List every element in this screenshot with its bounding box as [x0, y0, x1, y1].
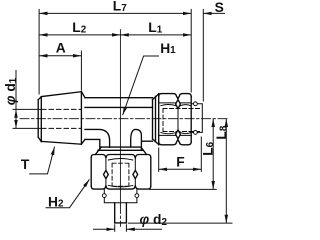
dimension phi d1 vertical: [15, 70, 17, 109]
branch neck right wall with fillet and right drop: [131, 129, 153, 150]
svg-text:F: F: [176, 154, 184, 169]
right nut diamond bottom: [176, 130, 181, 139]
thread T end face: [80, 92, 82, 145]
extension line nut right face: [190, 9, 192, 93]
svg-text:L6: L6: [201, 141, 216, 155]
thread T chamfers: [38, 97, 41, 142]
bottom nut diamond left: [104, 170, 109, 178]
bottom nut H2 right face: [150, 158, 152, 187]
right nut right face: [190, 97, 192, 142]
body bottom left with step: [85, 139, 100, 150]
svg-text:H2: H2: [48, 194, 64, 209]
bottom skirt sleeve: [104, 189, 137, 203]
bottom nut hidden bore dashed: [112, 163, 129, 186]
extension lines F: [159, 137, 202, 172]
right nut bottom edge humps with notch: [159, 140, 192, 145]
right nut chamfer arcs: [161, 105, 191, 134]
body top line: [85, 97, 153, 99]
bottom cone slants: [95, 147, 146, 154]
right skirt sleeve: [191, 104, 202, 133]
bottom nut hex corner lines: [106, 158, 135, 185]
svg-text:L1: L1: [148, 20, 162, 35]
dimension F: [159, 168, 202, 170]
svg-text:A: A: [56, 40, 66, 55]
svg-text:L8: L8: [214, 125, 229, 139]
bottom nut H2 bottom edge humps: [91, 186, 151, 189]
extension line thread end A: [80, 51, 82, 91]
right seat plate inner line: [152, 100, 154, 139]
leader T: [29, 147, 54, 174]
right cone slants: [153, 94, 159, 145]
bottom skirt dimple circles: [102, 194, 106, 198]
extension lines phi d2: [115, 224, 127, 232]
wire extension line branch center: [119, 30, 121, 206]
thread T top edge: [41, 92, 81, 97]
svg-text:T: T: [21, 157, 30, 172]
bottom nut H2 left face: [90, 158, 92, 187]
right seat plate outer line: [155, 96, 157, 141]
bottom nut H2 top edge humps: [91, 155, 151, 158]
svg-text:L7: L7: [113, 0, 127, 14]
svg-text:φ d2: φ d2: [140, 212, 168, 228]
bottom nut diamond right: [133, 170, 138, 178]
dimension A: [39, 55, 81, 57]
thread T dashed root lines: [42, 109, 82, 128]
right skirt dimple circles: [194, 102, 198, 106]
centerline vertical branch axis: [119, 206, 121, 227]
extension lines phi d1: [13, 109, 42, 128]
dimension phi d2: [93, 228, 115, 230]
thread T left end face: [37, 100, 39, 138]
extension line nut bottom: [149, 188, 217, 190]
right nut chamfer band lines: [159, 103, 192, 135]
leader H2: [46, 179, 90, 207]
bottom tube end: [115, 222, 127, 224]
extension line tube end: [128, 222, 233, 224]
extension line tube stub end: [202, 9, 204, 102]
bottom tube walls: [115, 203, 127, 223]
right nut diamond top: [176, 100, 181, 109]
right nut left face: [158, 94, 160, 145]
dimension L7: [39, 12, 191, 14]
thread T bottom edge: [41, 141, 81, 144]
right nut top edge humps with notch: [159, 94, 192, 99]
dimension L2: [39, 34, 120, 36]
bottom cone inner line: [101, 146, 141, 148]
dimension L6: [212, 119, 214, 190]
bottom cone outer line: [98, 149, 143, 151]
thread T runout chamfers: [81, 92, 85, 145]
right nut hidden bore dashed: [163, 109, 202, 132]
thread T chamfer edge line: [40, 97, 42, 142]
svg-text:H1: H1: [160, 41, 176, 56]
centerline horizontal axis: [20, 118, 230, 120]
svg-text:S: S: [215, 0, 224, 15]
dimension S tail: [203, 12, 225, 14]
right nut hex corner line: [177, 99, 179, 139]
svg-text:φ d1: φ d1: [3, 77, 19, 105]
dimension L1: [120, 34, 191, 36]
svg-text:L2: L2: [72, 20, 86, 35]
body bore bottom left with fillet into branch neck: [85, 129, 110, 147]
bottom nut chamfer arcs middle flat: [108, 159, 132, 187]
leader H1: [123, 56, 159, 115]
body bore top line: [85, 106, 153, 108]
dimension L8: [225, 119, 227, 223]
extension line left end: [38, 9, 40, 95]
